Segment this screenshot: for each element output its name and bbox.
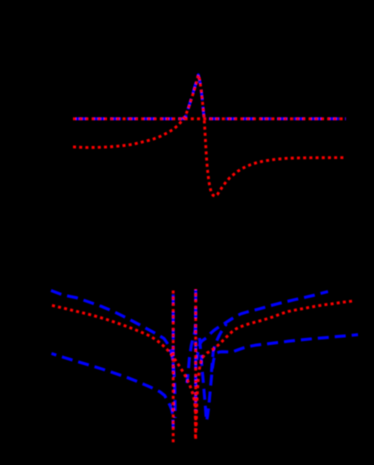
blue lower-right branch [200,335,359,421]
red vertical line 2 [194,289,197,439]
blue vertical line 2 [194,289,197,412]
blue vertical line 1 [172,290,175,373]
blue mid rising branch [187,300,196,383]
blue upper-left branch [51,291,175,419]
red vertical line 1 [172,291,175,444]
red right rising curve [196,301,353,430]
blue upper-right branch [197,292,328,360]
blue lower-left branch [52,354,174,429]
blue steep diagonal (second branch right of resonance) [212,324,227,372]
red dotted dispersive curve [73,75,344,196]
red left descending curve [52,305,196,439]
blue dashed baseline with narrow peak (Im part) [73,75,346,119]
red dotted flat line along baseline [73,117,346,120]
